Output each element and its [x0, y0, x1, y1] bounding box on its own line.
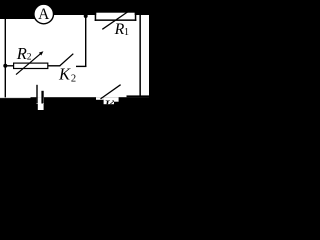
svg-text:2: 2 — [71, 73, 76, 84]
svg-text:K: K — [58, 65, 71, 84]
svg-text:1: 1 — [124, 27, 129, 38]
svg-text:R: R — [16, 44, 27, 63]
svg-text:2: 2 — [27, 53, 32, 63]
svg-text:A: A — [38, 6, 50, 23]
svg-text:R: R — [114, 21, 125, 38]
